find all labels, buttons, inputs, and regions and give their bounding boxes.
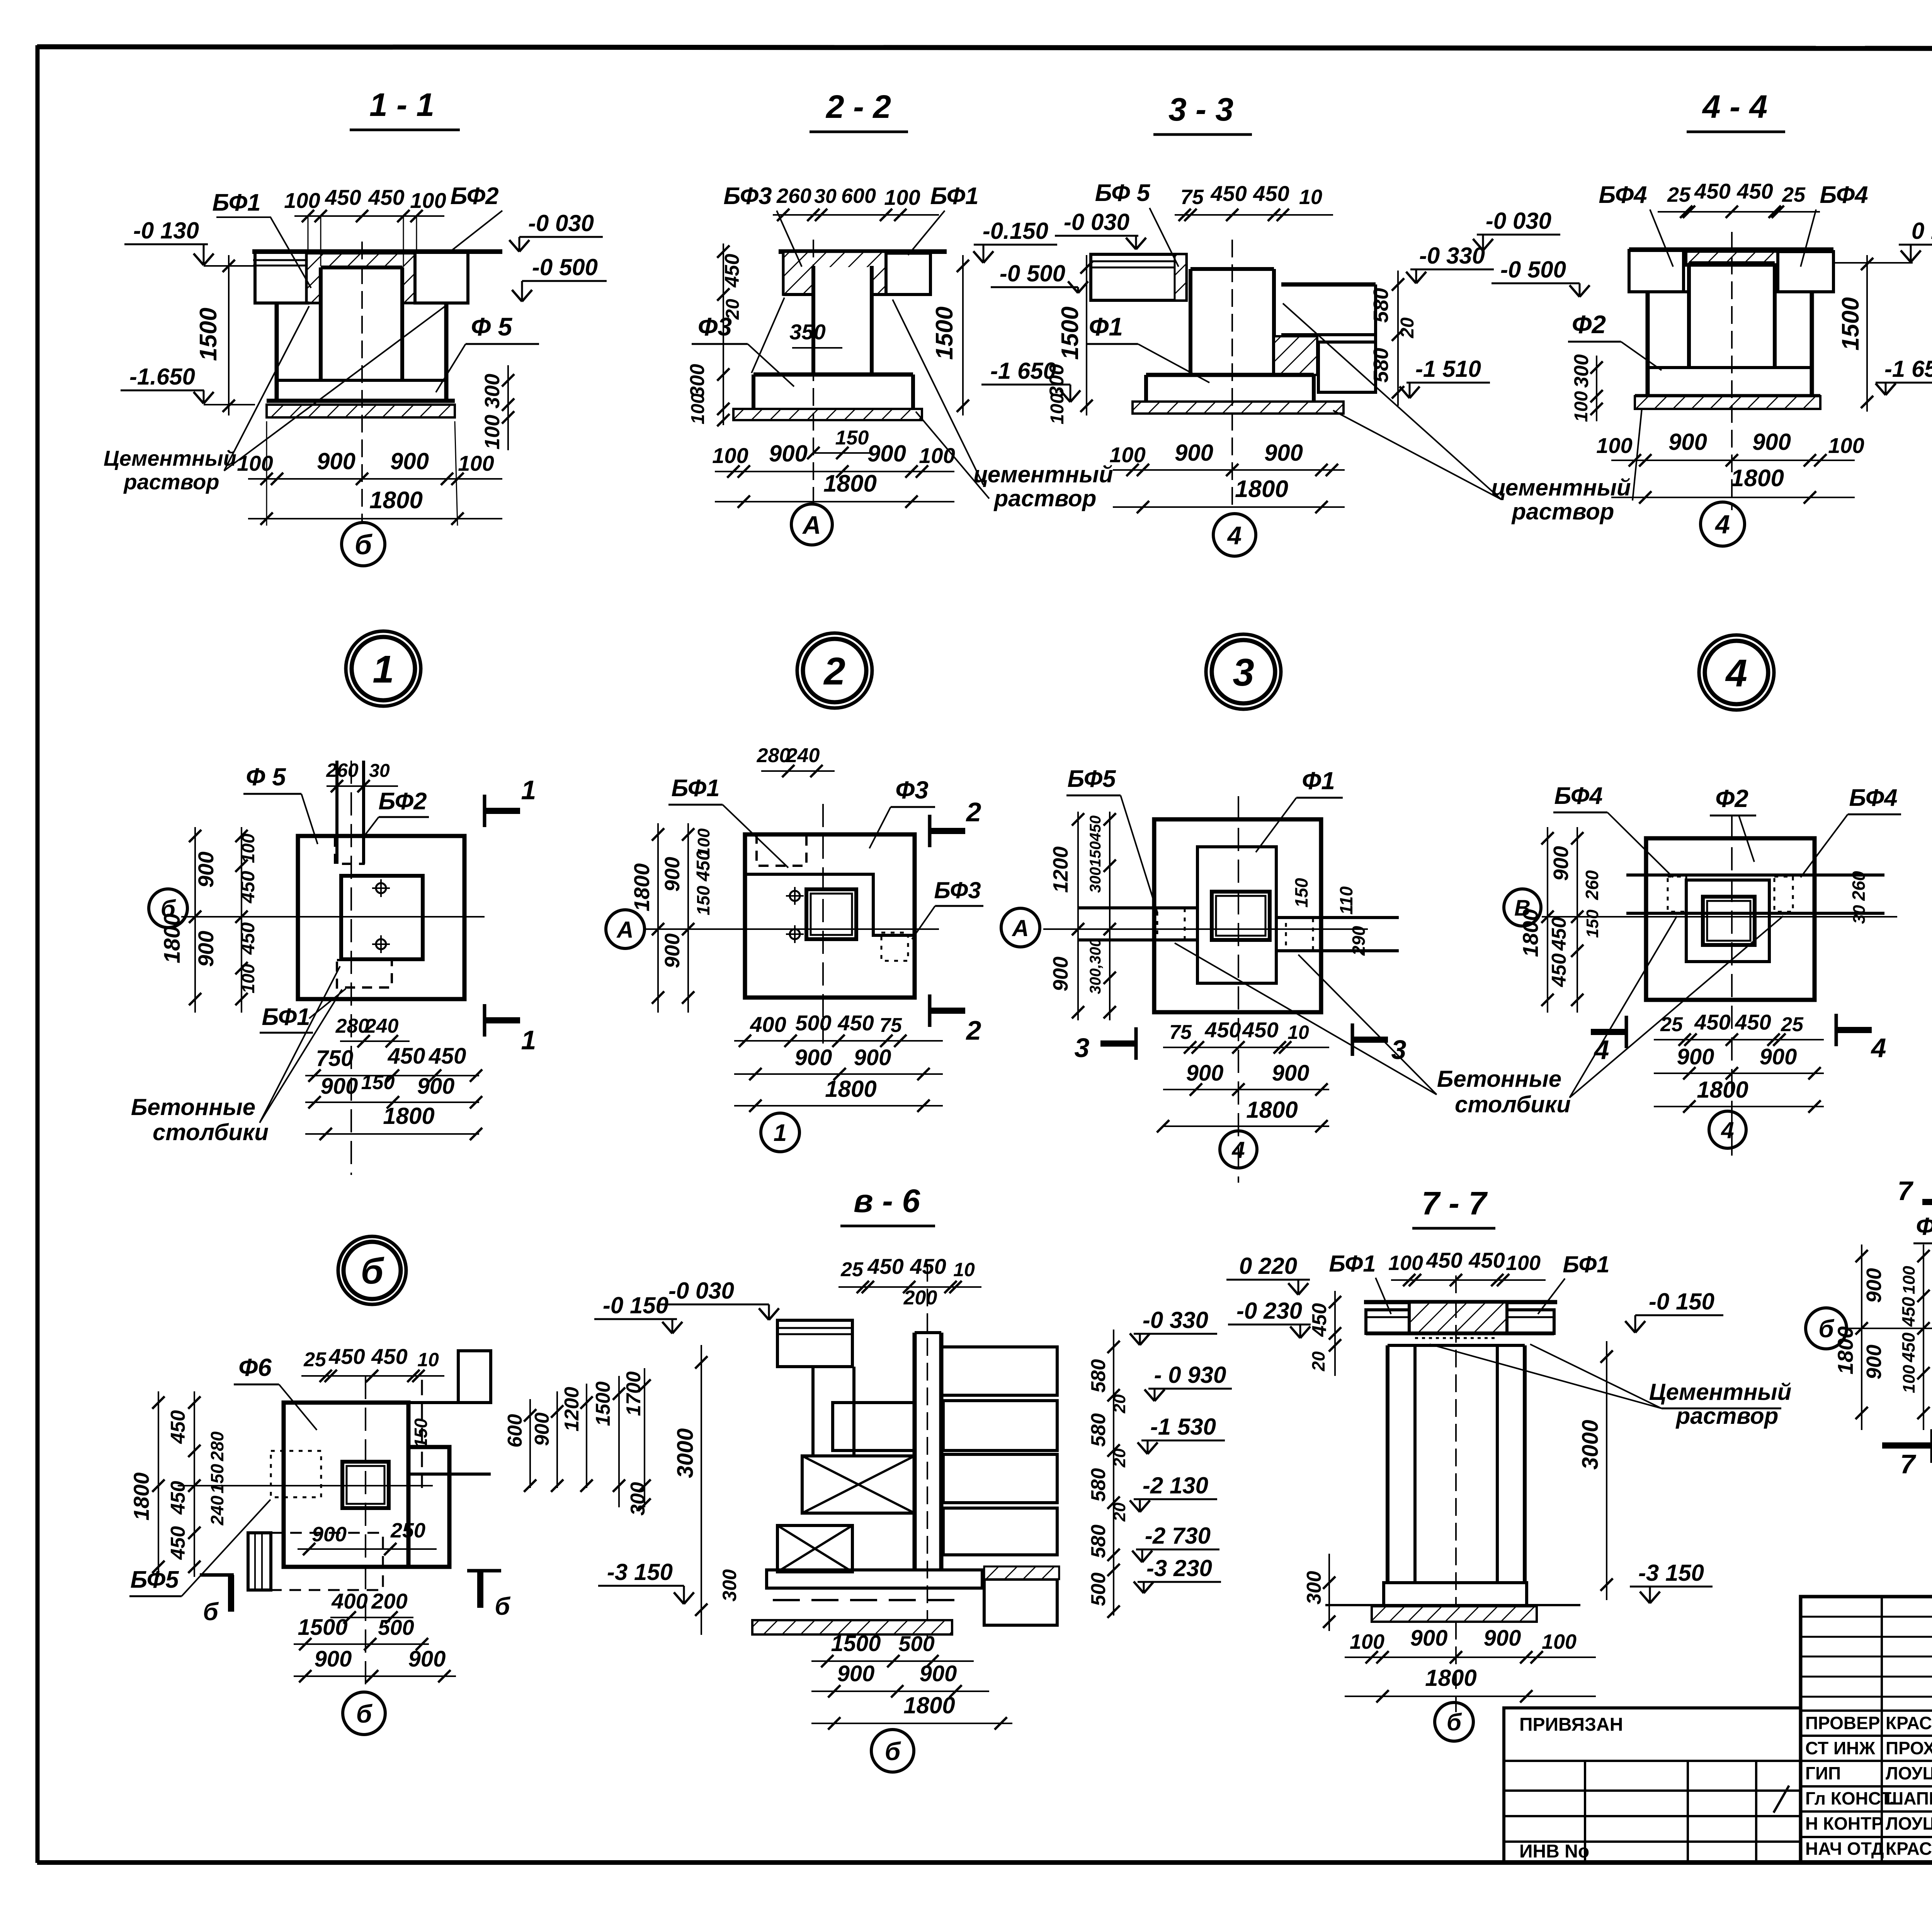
svg-text:100: 100 — [237, 451, 273, 475]
p3 beam left bottom — [1078, 938, 1197, 941]
s6 xbox2 d1 — [777, 1525, 852, 1572]
svg-text:4: 4 — [1227, 521, 1242, 550]
s3 label F1 underline — [1086, 343, 1138, 345]
s2 label F3 leader — [748, 344, 794, 386]
svg-text:280: 280 — [335, 1015, 369, 1037]
pb top dim line — [301, 1370, 444, 1382]
p4 axis circle V left — [1504, 889, 1541, 926]
svg-text:580: 580 — [1087, 1413, 1110, 1447]
svg-text:450: 450 — [1242, 1018, 1278, 1042]
s3 bottom dim row1 — [1113, 464, 1345, 476]
pb inner dim line — [298, 1543, 437, 1555]
s6 col right — [852, 1367, 855, 1456]
svg-text:450: 450 — [167, 1410, 189, 1444]
s1 step left — [255, 301, 309, 305]
svg-text:БФ4: БФ4 — [1599, 182, 1647, 208]
svg-text:100: 100 — [284, 188, 320, 213]
svg-text:25: 25 — [1782, 183, 1806, 206]
svg-text:450: 450 — [388, 1044, 425, 1069]
svg-text:БФ 5: БФ 5 — [1095, 180, 1151, 206]
section 2-2 title underline — [810, 131, 908, 133]
tb aux row 1 — [1504, 1760, 1801, 1762]
s6 wall left — [913, 1333, 917, 1570]
p1 dim 280 line — [340, 1035, 410, 1047]
p2 axis horizontal — [645, 928, 939, 930]
p2 pedestal inner — [811, 894, 852, 935]
pb section mark b left stem — [228, 1575, 234, 1612]
s6 level -0.930 — [1145, 1362, 1232, 1401]
s1 hatched beam band — [306, 253, 415, 303]
svg-text:900: 900 — [867, 441, 906, 466]
svg-text:б: б — [361, 1251, 384, 1292]
svg-text:260: 260 — [326, 759, 359, 781]
pb section mark b left bar — [200, 1573, 234, 1577]
s6 lower right block — [984, 1579, 1057, 1625]
svg-text:БФ2: БФ2 — [378, 788, 427, 815]
svg-text:900: 900 — [1049, 957, 1072, 991]
p2 section mark 2 top — [930, 815, 965, 847]
s3-s4 cement leader c — [1633, 405, 1642, 501]
svg-text:-3 230: -3 230 — [1146, 1555, 1212, 1581]
svg-text:150: 150 — [207, 1464, 227, 1493]
svg-text:4: 4 — [1725, 652, 1747, 695]
svg-text:100: 100 — [884, 185, 920, 209]
s1 column left edge — [319, 267, 323, 380]
svg-text:450: 450 — [1735, 1010, 1771, 1034]
svg-text:4: 4 — [1721, 1117, 1734, 1143]
p1 conc leader a — [260, 966, 340, 1123]
svg-text:900: 900 — [795, 1045, 832, 1070]
svg-text:КРАСАВИН: КРАСАВИН — [1886, 1839, 1932, 1859]
p3 conc leader a — [1298, 955, 1437, 1095]
svg-text:-0 030: -0 030 — [528, 210, 594, 236]
p1 label BF2 leader — [365, 817, 379, 835]
p2 dotted rect right — [881, 933, 908, 961]
s4 bottom dim row1 — [1611, 454, 1855, 466]
svg-text:75: 75 — [1180, 186, 1204, 209]
svg-text:240: 240 — [207, 1495, 227, 1525]
tb aux row 3 — [1504, 1815, 1801, 1817]
p4 label BF4 l underline — [1553, 812, 1607, 814]
svg-text:4 - 4: 4 - 4 — [1702, 89, 1767, 125]
tb name row 1 — [1801, 1735, 1932, 1737]
s2 foundation top — [753, 373, 913, 377]
s4 step left — [1648, 290, 1689, 293]
s2 column left — [811, 266, 815, 375]
svg-text:1800: 1800 — [160, 913, 185, 963]
pb dotted rect left — [271, 1451, 321, 1497]
p4 label BF4 l leader — [1607, 812, 1673, 877]
svg-text:290: 290 — [1349, 926, 1369, 956]
tb central grid outline — [1801, 1597, 1932, 1862]
s7 top dim line — [1391, 1274, 1546, 1286]
svg-text:НАЧ ОТД: НАЧ ОТД — [1805, 1839, 1884, 1859]
s6 level -3.150 — [598, 1559, 694, 1604]
tb aux slash — [1774, 1786, 1789, 1813]
s3 level -1.510 — [1400, 356, 1490, 398]
svg-text:900: 900 — [531, 1413, 553, 1446]
svg-text:500: 500 — [1087, 1573, 1110, 1606]
svg-text:450: 450 — [1694, 179, 1730, 203]
s3 foundation top — [1146, 373, 1314, 377]
s1 ext b — [320, 216, 321, 266]
border frame top — [37, 47, 1932, 49]
p9 label F9 underline — [1913, 1243, 1932, 1245]
p2 bottom dim row2 — [734, 1068, 943, 1080]
svg-text:450: 450 — [167, 1526, 189, 1560]
p1 bottom dim row1 — [305, 1069, 482, 1082]
section 1-1 title underline — [350, 129, 460, 131]
p3 left dim b — [1104, 812, 1116, 1020]
tb aux col c — [1755, 1761, 1757, 1862]
s2 level -0.150 — [973, 218, 1057, 263]
s1 bottom dim row1 — [248, 473, 502, 485]
p9 left dim a — [1855, 1245, 1868, 1430]
pb label F6 underline — [234, 1384, 279, 1386]
svg-text:3000: 3000 — [1578, 1420, 1603, 1469]
pb right lower rect — [408, 1447, 449, 1567]
svg-text:300: 300 — [1046, 364, 1068, 398]
s1 ext d — [416, 216, 417, 249]
svg-text:25: 25 — [840, 1258, 864, 1281]
p2 anchor b — [786, 925, 804, 943]
p2 section mark 2 bottom — [930, 994, 965, 1027]
svg-text:900: 900 — [194, 931, 218, 967]
svg-text:450: 450 — [1426, 1248, 1462, 1272]
p3 bottom dim row3 — [1157, 1120, 1329, 1132]
p1 pedestal rect — [341, 876, 423, 959]
svg-text:900: 900 — [321, 1074, 358, 1099]
pb column square — [342, 1462, 389, 1508]
svg-text:1500: 1500 — [1057, 306, 1083, 360]
p2 top dim line — [761, 765, 835, 777]
p4 dotted rect left — [1668, 877, 1686, 912]
svg-text:300: 300 — [481, 374, 504, 409]
s2 soil slope — [752, 298, 784, 373]
node circle 2 — [797, 633, 872, 708]
p4 label F2 leader — [1739, 815, 1754, 862]
s7 beam left line — [1366, 1316, 1409, 1318]
svg-text:100: 100 — [1828, 433, 1864, 458]
node circle 1 — [346, 631, 421, 706]
s6 bottom dim row1 — [811, 1655, 974, 1667]
svg-text:ПРОВЕР: ПРОВЕР — [1805, 1713, 1880, 1733]
svg-text:900: 900 — [1668, 429, 1707, 455]
s7 label BF1 l leader — [1376, 1278, 1391, 1314]
svg-text:БФ1: БФ1 — [262, 1004, 310, 1030]
svg-text:900: 900 — [769, 441, 808, 466]
s2 axis circle A — [791, 504, 832, 545]
svg-text:-0 330: -0 330 — [1419, 243, 1485, 269]
s1 column cap top — [321, 266, 402, 269]
s3 column left — [1189, 269, 1192, 376]
p4 axis vertical — [1731, 815, 1733, 1163]
tb aux col b — [1687, 1761, 1689, 1862]
s1 ext c — [403, 216, 404, 266]
s2 level -0.500 — [991, 260, 1088, 293]
svg-text:2: 2 — [966, 1015, 981, 1045]
border frame left — [36, 45, 40, 1863]
svg-text:б: б — [1447, 1709, 1462, 1736]
svg-text:10: 10 — [1299, 186, 1322, 209]
p1 axis circle B — [149, 889, 187, 928]
s1 left slab line b — [253, 265, 307, 267]
s3 column top — [1190, 267, 1274, 271]
svg-text:150: 150 — [361, 1071, 395, 1094]
s7 left dim — [1329, 1291, 1341, 1376]
svg-text:б: б — [355, 529, 373, 560]
svg-text:20: 20 — [1308, 1351, 1328, 1372]
s3 label BF5 leader — [1150, 208, 1179, 267]
svg-text:450: 450 — [837, 1011, 874, 1035]
svg-text:2: 2 — [823, 650, 845, 693]
s1 level -0.500 — [512, 254, 607, 301]
svg-text:100: 100 — [1047, 393, 1068, 424]
p2 bottom dim row3 — [734, 1100, 943, 1112]
s1 cement leader a — [224, 306, 309, 471]
svg-text:А: А — [802, 511, 821, 539]
svg-text:-3 150: -3 150 — [1638, 1560, 1704, 1586]
s1 pier right edge — [444, 303, 449, 401]
svg-text:30: 30 — [814, 185, 837, 208]
svg-text:Ф3: Ф3 — [895, 776, 929, 804]
svg-text:-0 030: -0 030 — [1486, 208, 1551, 234]
p4 bottom dim row2 — [1654, 1067, 1824, 1079]
svg-text:-1 510: -1 510 — [1415, 356, 1481, 382]
p4 bottom dim row3 — [1654, 1100, 1824, 1113]
svg-text:БФ4: БФ4 — [1820, 182, 1868, 208]
svg-text:25: 25 — [1667, 183, 1691, 206]
svg-text:900: 900 — [1862, 1345, 1886, 1379]
p2 pedestal square — [806, 889, 856, 939]
p2 label F3 underline — [891, 806, 935, 808]
svg-text:900: 900 — [1175, 440, 1213, 466]
svg-text:900: 900 — [1760, 1044, 1797, 1069]
s4 pier bottom — [1648, 366, 1812, 369]
svg-text:300: 300 — [1570, 354, 1593, 388]
svg-text:БФ4: БФ4 — [1554, 783, 1602, 809]
svg-text:столбики: столбики — [153, 1119, 269, 1145]
s3 level -0.330 — [1406, 243, 1494, 283]
s2 step line right — [872, 293, 930, 296]
s6 xbox1 d1 — [802, 1456, 915, 1513]
section 3-3 title underline — [1153, 133, 1252, 136]
svg-text:СТ ИНЖ: СТ ИНЖ — [1805, 1738, 1875, 1758]
p1 bottom dim row2 — [305, 1096, 482, 1108]
svg-text:300150450: 300150450 — [1087, 815, 1104, 893]
svg-text:30: 30 — [1850, 905, 1869, 924]
svg-text:450: 450 — [325, 185, 361, 209]
s3 right step block — [1318, 342, 1376, 392]
s3 base slab hatched — [1133, 402, 1344, 414]
pb right beam top — [408, 1401, 491, 1404]
svg-text:-0 330: -0 330 — [1143, 1307, 1208, 1333]
s2 label BF3 leader — [777, 211, 802, 267]
s1 cement leader b — [224, 305, 446, 471]
s2 cement leader b — [916, 412, 989, 499]
svg-text:100: 100 — [1388, 1251, 1423, 1275]
s3 foundation left — [1144, 375, 1148, 402]
s6 wall right — [939, 1333, 944, 1570]
s2 bottom dim row2 — [715, 495, 954, 508]
s6 base slab hatched — [752, 1620, 952, 1634]
svg-text:580: 580 — [1369, 288, 1393, 323]
svg-text:1800: 1800 — [1425, 1665, 1476, 1691]
pb right dim e — [638, 1368, 651, 1511]
s7 left dim b — [1323, 1554, 1335, 1631]
section 6-6 title underline — [840, 1225, 935, 1227]
s1 vert dim — [223, 255, 235, 415]
p1 top dim line — [327, 780, 398, 792]
p1 left dim line b — [235, 827, 248, 1013]
s6 beam line b — [777, 1333, 852, 1335]
svg-text:Бетонные: Бетонные — [1437, 1066, 1561, 1092]
svg-text:ПРОХОРОВА: ПРОХОРОВА — [1886, 1738, 1932, 1758]
pb label BF5 leader — [182, 1500, 270, 1596]
s7 beam bottom line — [1366, 1331, 1554, 1335]
svg-text:Гл КОНСТ.: Гл КОНСТ. — [1805, 1788, 1895, 1808]
s7 top line — [1364, 1300, 1557, 1304]
section 7-7 title underline — [1412, 1227, 1495, 1230]
pb strip line b — [261, 1533, 263, 1590]
p3 column inner — [1216, 896, 1265, 936]
svg-text:450: 450 — [1898, 1332, 1918, 1362]
svg-text:А: А — [616, 917, 633, 943]
p4 conc leader b — [1570, 916, 1783, 1098]
s4 column right — [1773, 263, 1777, 369]
p2 axis circle A — [606, 910, 645, 948]
svg-text:100: 100 — [1350, 1630, 1384, 1653]
p4 label BF4 r leader — [1801, 814, 1848, 877]
p3 beam right bottom — [1276, 949, 1399, 952]
svg-text:БФ4: БФ4 — [1849, 785, 1897, 811]
section 4-4 title underline — [1687, 131, 1785, 133]
svg-text:БФ1: БФ1 — [671, 775, 719, 802]
pb right dim c — [580, 1384, 593, 1492]
s4 label F2 underline — [1568, 341, 1621, 343]
p1 label F5 leader — [301, 794, 318, 844]
s6 beam line a — [777, 1327, 852, 1329]
svg-text:1: 1 — [774, 1120, 787, 1146]
svg-text:450: 450 — [328, 1344, 365, 1369]
s7 centerline — [1455, 1275, 1457, 1712]
svg-text:-0 150: -0 150 — [603, 1292, 668, 1318]
svg-text:900: 900 — [1862, 1268, 1886, 1303]
svg-text:7: 7 — [1898, 1176, 1914, 1206]
s3 label F1 leader — [1138, 344, 1209, 383]
svg-text:4: 4 — [1231, 1137, 1245, 1163]
tb grid row 4 — [1801, 1696, 1932, 1698]
svg-text:100: 100 — [1900, 1365, 1918, 1393]
svg-text:0 220: 0 220 — [1239, 1253, 1297, 1279]
s2 foundation left — [752, 375, 755, 409]
s4 label F2 leader — [1621, 342, 1662, 370]
svg-text:1 - 1: 1 - 1 — [369, 87, 434, 123]
s1 column right edge — [400, 267, 404, 380]
s7 cement leader b — [1430, 1344, 1662, 1408]
s6 level -2.730 — [1132, 1523, 1219, 1562]
s3 level -0.030 — [1473, 208, 1560, 250]
s6 level -0.330 — [1130, 1307, 1217, 1345]
svg-text:1800: 1800 — [1731, 465, 1784, 492]
s7 beam right — [1507, 1310, 1554, 1333]
s7 beam left — [1366, 1310, 1409, 1333]
s3 right slab bottom — [1281, 333, 1376, 336]
svg-text:450: 450 — [237, 871, 259, 904]
s7 column v2 — [1413, 1345, 1417, 1583]
svg-text:900: 900 — [390, 448, 429, 474]
svg-text:150: 150 — [1583, 909, 1602, 938]
s1 floor slab top line — [252, 249, 502, 254]
svg-text:3: 3 — [1075, 1033, 1090, 1063]
s1 label BF1 leader — [216, 217, 311, 288]
svg-text:900: 900 — [312, 1523, 347, 1546]
s6 right dim — [1107, 1330, 1120, 1618]
svg-text:200: 200 — [371, 1589, 407, 1613]
s4 step right — [1775, 290, 1812, 293]
p2 left dim b — [682, 823, 694, 1013]
s7 column v3 — [1496, 1345, 1499, 1583]
svg-text:500: 500 — [378, 1615, 414, 1639]
p2 foundation plan square — [745, 834, 915, 998]
p2 axis vertical — [822, 804, 824, 1044]
pb main rect — [284, 1403, 408, 1567]
s3 hatch zone right — [1274, 336, 1317, 375]
svg-text:900: 900 — [1484, 1626, 1521, 1651]
svg-text:450: 450 — [371, 1344, 407, 1369]
s3 cement leader a — [1333, 410, 1501, 499]
svg-text:БФ1: БФ1 — [1329, 1251, 1376, 1277]
svg-text:300,300: 300,300 — [1087, 938, 1104, 994]
svg-text:б: б — [885, 1737, 901, 1765]
svg-text:900: 900 — [1272, 1061, 1310, 1086]
s3 beam hatch edge — [1175, 254, 1186, 300]
s6 slab row1 — [941, 1347, 1057, 1395]
pb left dim a — [152, 1391, 165, 1577]
svg-text:900: 900 — [661, 933, 684, 968]
p3 bottom dim row1 — [1163, 1041, 1329, 1054]
svg-text:580: 580 — [1087, 1525, 1110, 1558]
svg-text:100: 100 — [1506, 1251, 1541, 1275]
s3 top dim line — [1175, 209, 1333, 221]
p3 column square — [1212, 892, 1270, 940]
s4 beam BF4 right — [1778, 252, 1833, 292]
svg-text:900: 900 — [315, 1646, 352, 1672]
s1 left slab line a — [253, 259, 307, 261]
s6 foundation dash — [773, 1599, 966, 1601]
s7 base slab hatched — [1372, 1606, 1537, 1622]
svg-text:1200: 1200 — [561, 1387, 583, 1432]
p3 axis vertical — [1238, 796, 1239, 1183]
svg-text:б: б — [495, 1592, 511, 1620]
p1 section mark 1 bottom — [485, 1004, 520, 1037]
s7 foundation line — [1325, 1604, 1580, 1606]
s7 column top — [1388, 1344, 1525, 1347]
s6 beam BF5 rect — [777, 1320, 852, 1367]
svg-text:240: 240 — [365, 1015, 399, 1037]
svg-text:1500: 1500 — [931, 306, 958, 360]
s1 level line -0.130 — [204, 265, 255, 267]
svg-text:100: 100 — [1571, 391, 1592, 422]
svg-text:280: 280 — [757, 744, 791, 767]
tb grid row 3 — [1801, 1676, 1932, 1678]
svg-text:280: 280 — [207, 1431, 227, 1461]
p3 section mark 3 left — [1100, 1027, 1136, 1060]
s3 bottom dim row2 — [1113, 501, 1345, 513]
s2 dim 350 line — [792, 347, 842, 349]
p3 bottom dim row2 — [1163, 1083, 1329, 1096]
svg-text:100: 100 — [410, 188, 446, 213]
